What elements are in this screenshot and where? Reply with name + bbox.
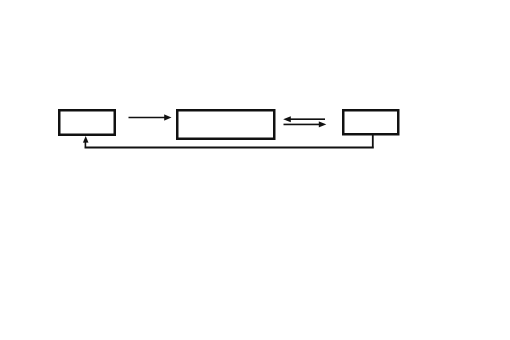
feedback wire: rise into left box [84, 141, 86, 148]
equilibrium arrow top (points left) [283, 116, 325, 122]
arrow left-to-middle [129, 114, 172, 120]
feedback arrowhead (points up into left box) [83, 136, 89, 143]
equilibrium arrow bottom (points right) [284, 121, 327, 127]
feedback wire: drop from right box [372, 136, 374, 149]
box middle [177, 110, 274, 139]
feedback wire: horizontal run [85, 147, 374, 149]
box right [343, 110, 398, 134]
box left [59, 110, 115, 135]
